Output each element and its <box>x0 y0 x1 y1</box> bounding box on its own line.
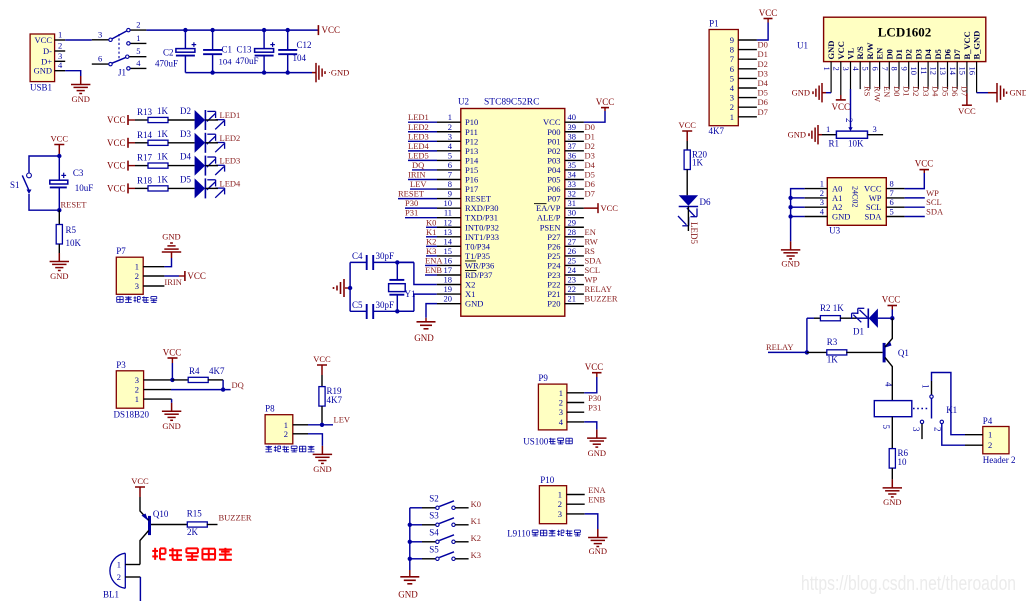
svg-text:D6: D6 <box>943 49 953 59</box>
svg-text:RS: RS <box>585 246 596 256</box>
svg-text:D3: D3 <box>180 129 191 139</box>
svg-text:1: 1 <box>135 394 139 404</box>
wire USB1 pin1 to J1 pin3 <box>65 39 92 41</box>
capacitor C4 30pF <box>350 261 367 263</box>
svg-text:WP: WP <box>585 275 598 285</box>
svg-text:4: 4 <box>136 58 141 68</box>
svg-text:GND: GND <box>313 464 331 474</box>
connector P7 <box>116 257 143 294</box>
svg-text:INT0/P32: INT0/P32 <box>465 222 499 232</box>
svg-text:104: 104 <box>293 53 307 63</box>
svg-text:5: 5 <box>861 67 871 71</box>
svg-text:VCC: VCC <box>51 134 69 144</box>
svg-text:X1: X1 <box>465 289 475 299</box>
wire R19 to LEV node <box>321 406 323 425</box>
svg-text:R15: R15 <box>187 509 203 519</box>
svg-text:P17: P17 <box>465 184 478 194</box>
svg-text:9: 9 <box>448 189 452 199</box>
P7 pin3 stub <box>143 285 164 287</box>
svg-text:1K: 1K <box>157 152 169 162</box>
svg-text:RELAY: RELAY <box>766 342 794 352</box>
svg-text:C5: C5 <box>352 300 363 310</box>
svg-text:VCC: VCC <box>601 203 619 213</box>
svg-text:2: 2 <box>558 499 562 509</box>
svg-text:WR/P36: WR/P36 <box>465 260 494 270</box>
wire R18 to D5 <box>168 187 195 189</box>
U1 pin 6 line <box>879 62 881 90</box>
svg-text:LCD1602: LCD1602 <box>878 25 931 40</box>
connector P3 <box>116 371 143 408</box>
svg-text:S5: S5 <box>429 544 439 554</box>
junction C5 node <box>395 309 399 313</box>
svg-text:B_GND: B_GND <box>972 31 982 60</box>
svg-text:36: 36 <box>568 150 577 160</box>
power VCC for R17 <box>127 161 129 171</box>
svg-text:21: 21 <box>568 294 577 304</box>
power VCC U3 <box>923 170 925 173</box>
svg-text:VCC: VCC <box>585 362 604 372</box>
svg-text:1: 1 <box>135 262 139 272</box>
connector P1 4K7 <box>709 30 738 126</box>
svg-text:SDA: SDA <box>926 207 944 217</box>
junction dots top rail <box>183 28 187 32</box>
wire R2 to D1 <box>840 317 858 319</box>
P1 pin 2 <box>738 106 757 108</box>
svg-text:VCC: VCC <box>107 115 126 125</box>
svg-text:P1: P1 <box>709 19 719 29</box>
svg-text:1K: 1K <box>157 129 169 139</box>
svg-text:2: 2 <box>58 41 62 51</box>
svg-text:R/S: R/S <box>855 46 865 60</box>
svg-text:U1: U1 <box>797 41 808 51</box>
svg-text:K1: K1 <box>946 405 957 415</box>
svg-text:SDA: SDA <box>864 212 882 222</box>
buzzer BL1 <box>110 553 125 588</box>
svg-text:BUZZER: BUZZER <box>585 294 618 304</box>
resistor R6 10 <box>889 449 895 469</box>
svg-text:29: 29 <box>568 217 577 227</box>
P9 pin2 wire <box>567 402 584 404</box>
U3 pin 8 VCC <box>886 188 904 190</box>
svg-text:LEV: LEV <box>410 179 427 189</box>
svg-text:2: 2 <box>135 385 139 395</box>
svg-text:4K7: 4K7 <box>327 395 343 405</box>
svg-text:C4: C4 <box>352 251 363 261</box>
LED D5 <box>195 178 206 198</box>
svg-text:GND: GND <box>588 448 606 458</box>
svg-text:6: 6 <box>730 64 734 74</box>
U1 pin 3 line <box>850 62 852 89</box>
ground GND P10 <box>597 529 599 538</box>
svg-text:8: 8 <box>448 179 452 189</box>
svg-text:GND: GND <box>788 130 806 140</box>
svg-text:SDA: SDA <box>585 255 603 265</box>
U2 right pin 36 P03 <box>565 159 584 161</box>
svg-text:INT1/P33: INT1/P33 <box>465 232 499 242</box>
svg-text:ALE/P: ALE/P <box>537 213 561 223</box>
svg-text:1: 1 <box>448 112 452 122</box>
svg-text:IRIN: IRIN <box>408 170 425 180</box>
svg-text:24C02: 24C02 <box>851 186 860 207</box>
node reset top <box>57 154 61 158</box>
wire VCC to R20 <box>686 141 688 150</box>
power VCC pin40 <box>604 108 606 111</box>
svg-text:470uF: 470uF <box>155 59 178 69</box>
svg-text:6: 6 <box>870 67 880 71</box>
svg-text:LED4: LED4 <box>220 178 242 188</box>
svg-text:470uF: 470uF <box>236 56 259 66</box>
wire net LED1 <box>408 121 437 123</box>
svg-text:ENB: ENB <box>425 265 442 275</box>
svg-text:X2: X2 <box>465 280 475 290</box>
svg-text:T0/P34: T0/P34 <box>465 241 491 251</box>
svg-text:R13: R13 <box>137 107 153 117</box>
U1 pin 8 line <box>898 62 900 90</box>
U1 pin 9 line <box>908 62 910 90</box>
wire RELAY <box>768 351 807 353</box>
wire D1 to VCC node <box>878 317 892 319</box>
U2 right pin 28 P27 <box>565 236 584 238</box>
svg-text:7: 7 <box>730 54 734 64</box>
wire net LED2 <box>408 131 437 133</box>
svg-text:D5: D5 <box>940 86 950 96</box>
wire node to R5 <box>58 210 60 224</box>
capacitor C1 104 <box>212 30 214 50</box>
wire net DQ <box>412 169 437 171</box>
svg-text:11: 11 <box>919 67 929 75</box>
connector USB1 <box>30 34 54 82</box>
U2 right pin 33 P06 <box>565 188 584 190</box>
wire net P30 <box>405 207 437 209</box>
power VCC R19 <box>321 365 323 375</box>
USB1 pin 2 stub <box>55 50 66 52</box>
ground GND crystal <box>345 287 350 289</box>
svg-text:104: 104 <box>219 57 233 67</box>
svg-text:38: 38 <box>568 131 577 141</box>
svg-text:TXD/P31: TXD/P31 <box>465 213 498 223</box>
svg-text:10K: 10K <box>848 139 864 149</box>
svg-text:P10: P10 <box>465 117 478 127</box>
switch S2 <box>410 507 422 509</box>
svg-text:P02: P02 <box>547 146 560 156</box>
svg-text:34: 34 <box>568 170 577 180</box>
P9 pin3 wire <box>567 411 584 413</box>
wire VCC to Q10 <box>139 497 141 506</box>
svg-text:3: 3 <box>135 375 139 385</box>
svg-text:1K: 1K <box>692 158 704 168</box>
svg-text:22: 22 <box>568 284 577 294</box>
svg-text:12: 12 <box>444 217 453 227</box>
svg-text:D7: D7 <box>758 107 768 117</box>
wire Q10 base to R15 <box>151 524 187 526</box>
svg-text:LED1: LED1 <box>220 110 241 120</box>
svg-text:8: 8 <box>890 67 900 71</box>
svg-text:3: 3 <box>873 124 877 134</box>
svg-text:19: 19 <box>444 284 453 294</box>
svg-text:4: 4 <box>851 67 861 72</box>
U2 right pin 34 P05 <box>565 179 584 181</box>
P10 pin1 wire <box>567 494 585 496</box>
wire D5 to net <box>206 187 219 189</box>
svg-text:C2: C2 <box>163 48 174 58</box>
svg-text:3: 3 <box>135 281 139 291</box>
capacitor C3 10uF <box>58 156 60 180</box>
wire junction up <box>806 318 808 352</box>
svg-text:7: 7 <box>880 67 890 71</box>
switch S4 <box>410 541 422 543</box>
P9 pin4 wire to GND <box>567 421 584 423</box>
svg-text:P31: P31 <box>588 403 601 413</box>
svg-text:7: 7 <box>448 170 452 180</box>
svg-text:6: 6 <box>448 160 452 170</box>
wire R13 to D2 <box>168 119 195 121</box>
power VCC for R14 <box>127 138 129 148</box>
switch J1 pin6 <box>92 63 109 65</box>
P8 pin1 wire <box>293 424 308 426</box>
svg-text:1: 1 <box>921 384 931 389</box>
U2 left pin 7 P16 <box>437 179 461 181</box>
svg-text:P24: P24 <box>547 260 561 270</box>
svg-text:LED1: LED1 <box>408 112 429 122</box>
svg-text:GND: GND <box>414 333 434 343</box>
wire SDA <box>905 216 925 218</box>
U3 pin 3 A2 <box>805 206 828 208</box>
svg-text:3: 3 <box>730 93 734 103</box>
svg-text:DQ: DQ <box>412 160 424 170</box>
svg-text:1: 1 <box>559 388 563 398</box>
U2 right pin 24 P23 <box>565 274 584 276</box>
svg-text:US100: US100 <box>523 437 549 447</box>
svg-text:VCC: VCC <box>543 117 561 127</box>
svg-text:D5: D5 <box>933 49 943 59</box>
wire net K0 <box>426 226 437 228</box>
U2 right pin 40 VCC <box>565 121 584 123</box>
svg-text:3: 3 <box>911 427 921 432</box>
svg-text:J1: J1 <box>118 68 126 78</box>
svg-text:DQ: DQ <box>232 380 244 390</box>
svg-text:D2: D2 <box>585 141 595 151</box>
resistor R13 1K <box>148 117 168 122</box>
ground GND right of rail <box>312 72 316 74</box>
svg-text:P06: P06 <box>547 184 560 194</box>
svg-text:RESET: RESET <box>61 200 88 210</box>
wire SCL <box>905 206 925 208</box>
U2 left pin 6 P15 <box>437 169 461 171</box>
svg-text:39: 39 <box>568 122 577 132</box>
svg-text:40: 40 <box>568 112 577 122</box>
svg-text:P4: P4 <box>983 416 993 426</box>
wire net LED3 <box>408 140 437 142</box>
resistor R20 1K <box>684 150 690 170</box>
svg-text:17: 17 <box>444 265 453 275</box>
svg-text:K1: K1 <box>471 516 481 526</box>
svg-text:D1: D1 <box>894 49 904 59</box>
svg-text:5: 5 <box>448 150 452 160</box>
P8 pin2 wire to GND <box>293 433 308 435</box>
U2 right pin 26 P25 <box>565 255 584 257</box>
svg-text:C1: C1 <box>222 45 233 55</box>
wire net K1 <box>426 236 437 238</box>
U2 right pin 23 P22 <box>565 284 584 286</box>
svg-text:R5: R5 <box>66 225 77 235</box>
U2 left pin 1 P10 <box>437 121 461 123</box>
U2 left pin 8 P17 <box>437 188 461 190</box>
U2 left pin 16 WR/P36 <box>437 264 461 266</box>
U1 pin 15 line <box>966 62 968 94</box>
wire node to S1 <box>29 156 59 173</box>
svg-text:GND: GND <box>883 497 901 507</box>
svg-text:RELAY: RELAY <box>585 284 613 294</box>
ground GND LCD right <box>988 92 997 94</box>
U3 pin 6 SCL <box>886 206 904 208</box>
P1 pin 3 <box>738 97 757 99</box>
resistor R5 10K <box>56 225 62 245</box>
svg-text:3: 3 <box>841 67 851 71</box>
svg-text:P30: P30 <box>405 198 418 208</box>
svg-text:13: 13 <box>444 227 453 237</box>
U1 pin 16 line <box>976 62 978 93</box>
svg-text:Q10: Q10 <box>153 509 169 519</box>
wire WP <box>905 197 925 199</box>
IC U1 LCD1602 body <box>824 17 986 61</box>
resistor R17 1K <box>148 163 168 168</box>
P10 pin3 wire to GND <box>567 513 585 515</box>
LED D3 <box>195 133 206 153</box>
P1 pin 4 <box>738 87 757 89</box>
svg-text:D3: D3 <box>585 150 595 160</box>
svg-text:GND: GND <box>162 421 180 431</box>
wire pin20 to GND <box>437 303 461 305</box>
wire net P31 <box>405 217 437 219</box>
svg-text:P01: P01 <box>547 136 560 146</box>
svg-text:10: 10 <box>909 67 919 76</box>
capacitor C13 470uF <box>263 30 265 48</box>
crystal Y1 <box>396 262 398 280</box>
svg-text:D0: D0 <box>585 122 595 132</box>
svg-text:3: 3 <box>558 509 562 519</box>
svg-text:D0: D0 <box>758 40 768 50</box>
svg-text:U3: U3 <box>829 226 840 236</box>
power VCC buzzer <box>139 487 141 497</box>
svg-text:D6: D6 <box>758 97 768 107</box>
wire U1 pin16 to GND <box>977 92 988 94</box>
caption water level switch <box>265 446 272 448</box>
wire net ENA <box>425 264 437 266</box>
svg-text:10uF: 10uF <box>75 183 94 193</box>
svg-text:25: 25 <box>568 255 577 265</box>
svg-text:LED5: LED5 <box>689 222 699 244</box>
svg-text:P23: P23 <box>547 270 560 280</box>
svg-text:D1: D1 <box>853 327 864 337</box>
svg-text:2K: 2K <box>187 527 199 537</box>
svg-text:2: 2 <box>284 429 288 439</box>
wire R4 to DQ node <box>208 379 223 381</box>
USB1 pin 4 stub <box>55 70 66 72</box>
P1 pin 5 <box>738 77 757 79</box>
U3 pin 1 A0 <box>805 188 828 190</box>
svg-text:S3: S3 <box>429 510 439 520</box>
svg-text:GND: GND <box>398 590 418 600</box>
svg-text:P30: P30 <box>588 393 601 403</box>
svg-text:R3: R3 <box>827 337 838 347</box>
svg-text:3: 3 <box>98 29 102 39</box>
svg-text:C3: C3 <box>73 168 84 178</box>
svg-text:VCC: VCC <box>107 183 126 193</box>
svg-text:24: 24 <box>568 265 577 275</box>
LED D4 <box>195 156 206 176</box>
svg-text:GND: GND <box>792 88 810 98</box>
transistor Q10 <box>148 516 151 535</box>
wire U3 left bus <box>791 189 805 242</box>
wire K0 <box>455 507 468 509</box>
connector P8 <box>265 415 293 444</box>
switch J1 blade top <box>112 31 127 39</box>
wire VCC rail top <box>146 29 318 31</box>
svg-text:RESET: RESET <box>398 189 425 199</box>
svg-text:20: 20 <box>444 294 453 304</box>
svg-text:VCC: VCC <box>596 97 615 107</box>
svg-text:D6: D6 <box>950 86 960 96</box>
node reset bottom <box>57 208 61 212</box>
U1 pin 7 line <box>888 62 890 90</box>
resistor R4 4K7 <box>188 377 208 382</box>
svg-text:D3: D3 <box>758 68 768 78</box>
switch J1 link dashed <box>118 34 120 61</box>
capacitor C2 470uF <box>184 30 186 48</box>
wire net LED5 <box>408 159 437 161</box>
svg-text:EN: EN <box>882 86 892 97</box>
svg-text:D2: D2 <box>180 106 191 116</box>
svg-text:VCC: VCC <box>322 25 341 35</box>
svg-text:9: 9 <box>899 67 909 71</box>
svg-text:2: 2 <box>117 572 121 582</box>
svg-text:P21: P21 <box>547 289 560 299</box>
svg-text:P26: P26 <box>547 241 560 251</box>
svg-text:15: 15 <box>444 246 453 256</box>
svg-text:D2: D2 <box>911 86 921 96</box>
svg-text:P7: P7 <box>116 246 126 256</box>
svg-text:P20: P20 <box>547 299 560 309</box>
svg-text:6: 6 <box>98 54 102 64</box>
svg-text:R/W: R/W <box>865 42 875 60</box>
svg-text:1: 1 <box>822 67 832 71</box>
svg-text:D3: D3 <box>921 86 931 96</box>
wire contact1 to P4 pin1 <box>932 373 966 435</box>
svg-text:ENB: ENB <box>588 495 605 505</box>
wire VL to potentiometer <box>850 89 852 128</box>
svg-text:VCC: VCC <box>836 41 846 59</box>
wire GND rail bottom <box>185 72 312 74</box>
U1 pin 11 line <box>927 62 929 90</box>
svg-text:DS18B20: DS18B20 <box>114 410 150 420</box>
svg-text:RESET: RESET <box>465 194 492 204</box>
svg-text:BL1: BL1 <box>103 590 119 600</box>
ground GND R1 <box>818 134 822 136</box>
resistor R18 1K <box>148 186 168 191</box>
U1 pin 12 line <box>937 62 939 90</box>
svg-text:P9: P9 <box>538 373 548 383</box>
power VCC P3 <box>171 363 173 380</box>
svg-text:30: 30 <box>568 208 577 218</box>
svg-text:27: 27 <box>568 236 577 246</box>
svg-text:1K: 1K <box>157 106 169 116</box>
U2 left pin 17 RD/P37 <box>437 274 461 276</box>
U2 left pin 11 TXD/P31 <box>437 217 461 219</box>
P9 pin1 wire to VCC <box>567 392 584 394</box>
svg-text:T1/P35: T1/P35 <box>465 251 490 261</box>
ground GND U3 <box>790 241 792 250</box>
svg-text:K0: K0 <box>426 217 436 227</box>
